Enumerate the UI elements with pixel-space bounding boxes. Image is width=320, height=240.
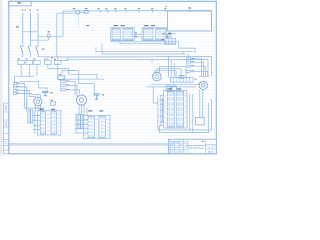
wire link48 drop [194,48,196,53]
label [168,33,170,34]
wire t5 right v2 [192,94,194,133]
label [51,100,53,101]
label QF1 [16,26,19,27]
wire r2 [190,62,203,76]
T4 col A [88,117,95,138]
wire r4 [190,71,207,76]
wire m4 b [202,80,204,83]
tap tick [152,10,154,12]
wire mw1 [66,81,75,95]
wire col feed [187,54,189,58]
tap tick [100,10,102,12]
relay KT2 [58,76,65,80]
phase label A [22,10,24,11]
wire T1-T2 link [134,33,142,35]
doc code mark [202,141,205,142]
header T1b [121,25,126,26]
wire bus6 [66,59,208,61]
svg-text:принципиальная: принципиальная [189,148,205,150]
T1 col A [112,29,120,40]
label KK1 [15,82,17,83]
label KK [54,59,56,60]
wire bus1 [111,41,179,42]
label KM3 [191,65,194,66]
tap label [151,8,154,9]
wire t5 left v2 [161,98,163,123]
label SB1 [17,83,19,84]
label KM2 [168,33,171,34]
wire t5 left v1 [160,95,162,126]
plug XP1a [28,110,30,123]
wire control drop [56,13,58,57]
header T2a [144,25,149,26]
label FU2 [85,8,88,9]
unit pin tick [188,10,190,12]
brake YB1 (T-bar) [43,92,49,96]
label KK [26,59,28,60]
fuse FU1 [76,11,79,14]
thermal relays KK row [18,60,25,64]
wire t3 row in [33,124,41,126]
wire m4 down a [199,89,201,118]
terminal table T5 [164,91,188,129]
wire brake feed2 [79,71,95,94]
T3 col A [40,112,45,134]
wire bus3 [96,47,193,51]
wire drop right [178,42,180,48]
label KM [42,49,45,50]
label QS [48,31,51,32]
wire lw4 [17,93,41,94]
wire m3 b [157,69,181,78]
label KT [50,92,52,93]
wire long run1 [62,70,79,72]
label c5 [195,79,197,80]
wire m4 down b [202,90,204,118]
label SA1 [67,81,70,82]
tap label [138,8,141,9]
tap tick [165,10,167,12]
wire below unit [168,33,177,35]
wire join [15,75,35,77]
wire t4 left v [75,113,77,133]
wire t4 row in [75,132,89,134]
wire t4 row in [75,119,89,121]
label KK [44,59,46,60]
tap tick [138,10,140,12]
wire L2 [58,63,104,79]
motor M1 [34,98,42,106]
wire inner loop left [170,60,172,78]
pushbutton column left [14,83,17,85]
wire [79,11,84,13]
title block [168,139,216,153]
wire link 48 [179,47,195,49]
wire step [61,57,68,61]
label KT2 [59,74,61,75]
label x2 [135,36,137,37]
label KM4 [191,71,194,72]
wire m1 d3 [40,105,42,111]
wire bus QF [22,31,38,33]
box KK5 [172,86,177,91]
motor M3 [153,72,162,81]
label KM3 [166,37,169,38]
wire t3 left v [34,110,36,134]
plug XP1b [31,110,33,123]
wire feeder [38,56,61,58]
wire [47,57,49,61]
wire m3 a [155,71,177,78]
phase line arrow [30,13,31,44]
T1 col B [123,29,133,40]
linkage dashed [78,14,80,28]
T3 col B [51,112,56,134]
header T2b [151,25,155,26]
terminal table T3 [38,111,61,135]
label SB3 [17,90,19,91]
wire r3 [190,66,205,76]
fuse FU2 [85,10,88,13]
wire lw1 [17,83,25,108]
label x4 [162,39,164,40]
aux contact [168,35,172,37]
wire control tap [38,36,63,38]
header T3a [39,109,43,110]
wire m2 d3 [83,105,85,116]
breaker QF1 poles [20,44,23,57]
stamp box top-left [9,1,31,6]
wire t5 right v1 [189,94,191,130]
wire [61,71,63,75]
wire under bus2 [147,86,197,88]
wire brake feed [20,81,47,91]
wire L [48,65,97,80]
tap label [105,8,108,9]
wire rail stub [62,11,64,37]
wire bottom loop2 [159,103,208,133]
wire join drop [14,76,16,83]
pushbutton column middle [61,80,67,82]
T3 row lines [38,115,61,131]
terminal table T2 [142,28,167,41]
box right [195,118,204,125]
wire bus2 [120,41,176,44]
label KK [17,59,19,60]
wire m4 a [200,82,202,83]
phase line arrow [37,13,38,44]
T2 col B [156,29,166,40]
wire t5 row in [159,103,163,105]
wire [28,65,30,77]
label a [165,6,167,7]
wire r1 [190,59,201,76]
tap tick [115,10,117,12]
label KM1 [191,58,194,59]
wire bottom loop1 [158,99,212,130]
wire inner loop right [207,60,209,77]
label x1 [135,32,137,33]
wire m1 d1 [35,105,37,111]
label x3 [162,33,164,34]
label Y1 [102,94,104,95]
label FU1 [73,8,76,9]
wire t5 row in [159,115,163,117]
wire t5 row in [159,100,163,102]
wire bottom rail1 [9,143,169,145]
wire bottom rail2 [9,144,169,146]
small table T2b [165,38,176,44]
tap label [124,8,127,9]
T4 row lines [84,119,111,134]
box right of M1 [51,102,56,106]
drawing frame [9,1,217,154]
plug XP2b [81,115,83,129]
wire t3 row in [33,119,41,121]
T4 col B [99,117,106,138]
tap a [179,75,181,78]
header T3b [51,109,55,110]
T5 col B [177,92,184,128]
tap b [182,75,184,78]
stamp text [17,2,21,3]
wire mw2 [66,85,79,96]
wire left loop v0 [153,87,158,103]
wire T1-T2 link2 [134,36,142,38]
control unit A1 [168,11,212,31]
label SA2 [67,85,70,86]
wire t4 row in [75,123,89,125]
wire m2 d2 [81,105,83,115]
wire lw3 [17,90,36,96]
wire left loop v2 [158,126,160,133]
speck [24,10,26,11]
header T4b [99,110,103,111]
svg-text:Лист 1: Лист 1 [208,151,213,153]
tap label [164,8,167,9]
terminal strip XT [171,78,194,83]
wire [36,65,38,77]
wire m3 c [159,67,186,78]
phase label C [37,10,39,11]
T5 col A [167,92,174,128]
T2 col A [143,29,153,40]
wire t5 row in [159,109,163,111]
plug XP2a [78,115,80,129]
wire bus4 [102,44,186,54]
wire [57,57,59,61]
wire mw3 [66,90,80,94]
wire m2 d1 [78,105,80,115]
header T4a [88,110,92,111]
wire elbow [31,37,49,40]
wire lw2 [17,87,27,108]
label SA3 [67,89,70,90]
label KM2 [191,61,194,62]
tap tick [125,10,127,12]
label KK [33,59,35,60]
wire m3 feed stub [151,59,153,63]
brake YB2 (T-bar) [94,94,99,99]
wire top rail [63,9,212,12]
wire t4 up [86,108,88,116]
T5 row lines [164,96,188,123]
wire t3 row in [33,115,41,117]
wire t5 row in [159,121,163,123]
header T5a [167,88,171,89]
wire t3 row in [33,129,41,131]
terminal table T4 [84,116,111,139]
wire t5 row in [159,95,163,97]
motor M4 [199,81,207,89]
wire T2 drop [164,41,166,45]
label SB2 [17,86,19,87]
header T5b [177,88,181,89]
wire t5 row in [159,125,163,127]
wire outer loop rect [169,56,212,77]
box KK4 [166,86,171,91]
tap label [97,8,100,9]
relay contact column KM [186,58,190,60]
header T1a [114,25,119,26]
frame left column table [3,103,9,154]
wire bus34 tie [182,51,184,54]
wire m4 c [204,82,206,83]
net label [86,25,89,26]
label above unit [188,7,191,8]
wire under bus1 [150,83,200,85]
wire m1 bottom bus [25,107,46,109]
wire m1 lead b [37,95,39,98]
wire control feed [57,12,76,14]
phase line arrow [22,13,23,44]
wire left drop [26,100,28,111]
phase label B [29,10,31,11]
scan edge band [0,0,2,156]
tap tick [107,10,109,12]
motor M2 [77,95,87,105]
wire m1 lead c [40,95,42,99]
wire t4 row in [75,128,89,130]
wire bus5 [58,55,169,58]
wire m1 lead a [35,97,37,99]
tap label [114,8,117,9]
wire left loop v [157,97,159,131]
contact QS [48,34,50,37]
wire relay join [199,75,209,77]
label SB4 [17,93,19,94]
wire loop left3 [173,63,175,78]
label KT [51,57,53,58]
terminal table T1 [111,28,134,41]
wire [20,65,22,77]
wire m1 d2 [37,106,39,111]
